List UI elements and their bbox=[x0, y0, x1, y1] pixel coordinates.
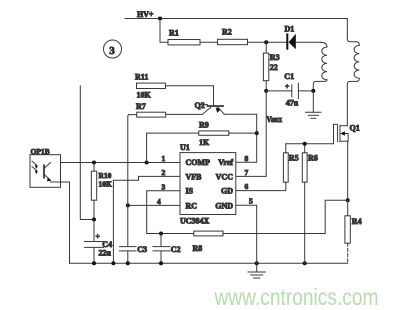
junction C2 top bbox=[159, 232, 163, 236]
svg-text:1K: 1K bbox=[199, 138, 210, 147]
svg-text:Vaux: Vaux bbox=[267, 115, 283, 124]
svg-text:R6: R6 bbox=[308, 153, 318, 162]
svg-text:D1: D1 bbox=[285, 25, 295, 34]
resistor R11 bbox=[135, 73, 166, 100]
node Vaux label bbox=[267, 115, 283, 124]
capacitor C4 bbox=[85, 220, 113, 264]
junction RC / R7 / C3 bbox=[126, 203, 130, 207]
svg-text:R4: R4 bbox=[352, 217, 362, 226]
svg-text:2: 2 bbox=[162, 168, 166, 177]
svg-text:OP1B: OP1B bbox=[31, 147, 50, 156]
node HV+ label bbox=[137, 10, 154, 19]
inductor secondary winding (right) and Q1 drain bbox=[347, 19, 359, 126]
symbol 3 circled bbox=[104, 40, 122, 58]
svg-text:+: + bbox=[96, 232, 100, 241]
wire R1 feed drop bbox=[160, 19, 168, 43]
svg-text:+: + bbox=[285, 82, 289, 91]
wire R7 left riser down to C3 bbox=[128, 115, 137, 247]
junction R6 on rail bbox=[303, 261, 307, 265]
inductor primary winding (left) bbox=[313, 42, 327, 91]
optocoupler OP1B bbox=[30, 147, 61, 187]
svg-text:R1: R1 bbox=[169, 29, 179, 38]
svg-text:3: 3 bbox=[109, 45, 115, 57]
resistor R1 bbox=[168, 29, 200, 45]
wire VCC pin 7 riser Vaux bbox=[236, 91, 266, 176]
pin number 7 bbox=[245, 168, 249, 177]
transistor Q1 MOSFET bbox=[338, 124, 360, 142]
svg-text:3: 3 bbox=[162, 183, 166, 192]
svg-text:Vref: Vref bbox=[218, 158, 233, 167]
svg-text:10K: 10K bbox=[99, 179, 113, 188]
resistor R4 bbox=[345, 200, 362, 263]
svg-text:C1: C1 bbox=[284, 72, 294, 81]
resistor R7 bbox=[136, 102, 166, 117]
transistor Q2 bbox=[166, 101, 225, 115]
wire Q1 gate lead bbox=[286, 124, 338, 143]
junction R10 bottom / C4 top bbox=[92, 218, 96, 222]
resistor R3 bbox=[263, 42, 279, 91]
junction R2 / R3 / D1 bbox=[264, 40, 268, 44]
pin number 2 bbox=[162, 168, 166, 177]
pin number 1 bbox=[162, 154, 166, 163]
junction C2 on rail bbox=[159, 261, 163, 265]
pin number 8 bbox=[245, 154, 249, 163]
junction VFB on rail bbox=[111, 261, 115, 265]
svg-text:C2: C2 bbox=[171, 245, 181, 254]
svg-text:GD: GD bbox=[221, 187, 233, 196]
diode D1 bbox=[285, 25, 296, 50]
svg-text:R11: R11 bbox=[135, 73, 148, 82]
svg-text:C4: C4 bbox=[102, 240, 112, 249]
svg-text:Q1: Q1 bbox=[350, 124, 360, 133]
svg-text:GND: GND bbox=[215, 201, 233, 210]
op-amp U1 IC box UC384X bbox=[180, 143, 236, 226]
resistor R5 bbox=[283, 144, 298, 182]
wire COMP net from optocoupler to pin 1 bbox=[51, 162, 181, 164]
svg-text:VFB: VFB bbox=[186, 172, 203, 181]
svg-text:www.cntronics.com: www.cntronics.com bbox=[214, 284, 379, 310]
svg-text:10K: 10K bbox=[137, 91, 152, 100]
resistor R6 bbox=[302, 144, 317, 263]
svg-text:R3: R3 bbox=[270, 53, 280, 62]
resistor R10 bbox=[91, 163, 112, 220]
capacitor C1 bbox=[266, 72, 313, 107]
svg-text:UC384X: UC384X bbox=[180, 216, 210, 225]
svg-text:7: 7 bbox=[245, 168, 249, 177]
resistor R9 bbox=[147, 121, 257, 163]
svg-text:Q2: Q2 bbox=[195, 101, 205, 110]
junction C4 on rail bbox=[92, 261, 96, 265]
svg-text:6: 6 bbox=[245, 182, 249, 191]
wire GD pin 6 to R5 bbox=[236, 182, 286, 190]
wire R11 left riser bbox=[80, 86, 94, 220]
svg-text:R9: R9 bbox=[199, 121, 209, 130]
svg-text:22u: 22u bbox=[99, 249, 112, 258]
wire VFB pin to ground rail bbox=[113, 176, 180, 263]
pin number 3 bbox=[162, 183, 166, 192]
ground under C1 bbox=[306, 91, 322, 118]
junction R9 right on Vref riser bbox=[255, 131, 259, 135]
watermark www.cntronics.com bbox=[214, 284, 379, 310]
wire R1 to R2 bbox=[200, 41, 218, 43]
capacitor C2 bbox=[153, 234, 181, 264]
wire ground rail bottom bbox=[70, 262, 348, 264]
junction C1 / winding / ground bbox=[311, 89, 315, 93]
svg-text:R8: R8 bbox=[193, 244, 203, 253]
svg-text:U1: U1 bbox=[180, 143, 190, 152]
wire current sense to R8 bbox=[223, 200, 348, 233]
svg-text:RC: RC bbox=[186, 201, 198, 210]
svg-text:IS: IS bbox=[186, 186, 194, 195]
svg-text:R2: R2 bbox=[222, 28, 232, 37]
junction HV+ rail / R1 feed bbox=[158, 17, 162, 21]
svg-text:HV+: HV+ bbox=[137, 10, 154, 19]
resistor R8 bbox=[193, 231, 224, 253]
wire OP1B emitter to ground rail bbox=[51, 182, 70, 263]
svg-text:R7: R7 bbox=[136, 102, 146, 111]
wire Vref pin 8 riser to Q2 emitter bbox=[224, 114, 257, 162]
wire D1 to primary winding top bbox=[296, 41, 321, 43]
pin number 4 bbox=[157, 197, 161, 206]
svg-text:22: 22 bbox=[270, 63, 278, 72]
wire RC pin to C3 node bbox=[128, 204, 180, 206]
ground main symbol bbox=[248, 263, 265, 278]
junction GND pin on rail bbox=[255, 261, 259, 265]
svg-text:47u: 47u bbox=[286, 98, 299, 107]
wire GND pin 5 bbox=[236, 205, 257, 263]
pin number 6 bbox=[245, 182, 249, 191]
pin labels U1 left bbox=[186, 158, 211, 210]
svg-text:COMP: COMP bbox=[186, 158, 211, 167]
junction R6 top on gate wire bbox=[303, 142, 307, 146]
svg-text:VCC: VCC bbox=[216, 172, 234, 181]
wire HV+ top rail bbox=[125, 18, 347, 20]
wire IS pin riser to C2/R8 bbox=[147, 191, 194, 234]
wire R2 to D1 node bbox=[248, 41, 287, 43]
pin number 5 bbox=[249, 196, 253, 205]
junction Q1 source / R4 / sense bbox=[346, 198, 350, 202]
svg-text:C3: C3 bbox=[137, 245, 147, 254]
wire Q1 source drop bbox=[347, 141, 349, 200]
svg-text:R5: R5 bbox=[289, 153, 299, 162]
pin labels U1 right bbox=[215, 158, 233, 210]
junction R9 branch on COMP net bbox=[145, 161, 149, 165]
resistor R2 bbox=[218, 28, 248, 45]
junction R10 top on COMP net bbox=[92, 161, 96, 165]
junction R3 / C1 / Vaux bbox=[264, 89, 268, 93]
svg-text:1: 1 bbox=[162, 154, 166, 163]
junction C3 on rail bbox=[126, 261, 130, 265]
wire R11 right to Q2 base bbox=[166, 86, 214, 106]
capacitor C3 bbox=[120, 245, 147, 263]
svg-text:8: 8 bbox=[245, 154, 249, 163]
svg-text:5: 5 bbox=[249, 196, 253, 205]
svg-text:4: 4 bbox=[157, 197, 161, 206]
